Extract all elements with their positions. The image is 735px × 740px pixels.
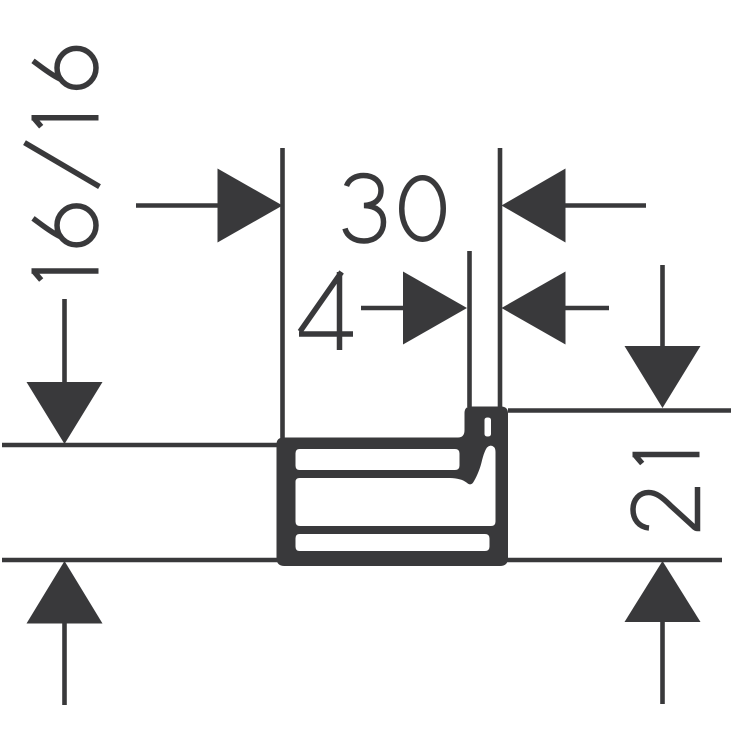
arrowhead dim 4 left (points right at V3): [403, 272, 467, 345]
dimension text 21 (rotated): [633, 455, 700, 529]
wire: dim 4 leader left: [361, 306, 407, 311]
wire: dim 16/16 vertical stem: [62, 299, 67, 385]
arrowhead dim 4 right (points left at V2): [502, 272, 566, 345]
arrowhead dim 21 (points down at line C): [625, 346, 701, 408]
wire: dim 21 vertical stem top: [660, 265, 665, 348]
wire: wall line B (bottom, full width): [2, 558, 722, 563]
wire: dim 16/16 vertical stem bottom: [62, 623, 67, 705]
wire: extension line V3: [467, 251, 472, 407]
wire: extension line V2: [498, 148, 503, 407]
dimension text 30: [345, 176, 443, 242]
wire: dim 4 leader right: [565, 306, 609, 311]
wire: profile top line C (right): [508, 408, 731, 413]
arrowhead dim 16/16 (points up at line B): [27, 561, 103, 624]
wire: dim 21 vertical stem bottom: [660, 622, 665, 704]
arrowhead dim 30 right (points left at V2): [502, 169, 566, 243]
arrowhead dim 30 left (points right at V1): [218, 169, 283, 243]
wire: tile surface line A (left): [2, 443, 284, 448]
dimension text 4: [299, 272, 353, 350]
arrowhead dim 21 (points up at line B): [625, 561, 701, 622]
wire: extension line V1: [280, 148, 285, 443]
wire: dim 30 leader right: [565, 203, 646, 208]
wire: dim 30 leader left: [136, 203, 222, 208]
profile cross-section (wall rail): [277, 407, 509, 567]
dimension text 16/16 (rotated): [25, 48, 100, 280]
arrowhead dim 16/16 (points down at line A): [27, 382, 103, 444]
